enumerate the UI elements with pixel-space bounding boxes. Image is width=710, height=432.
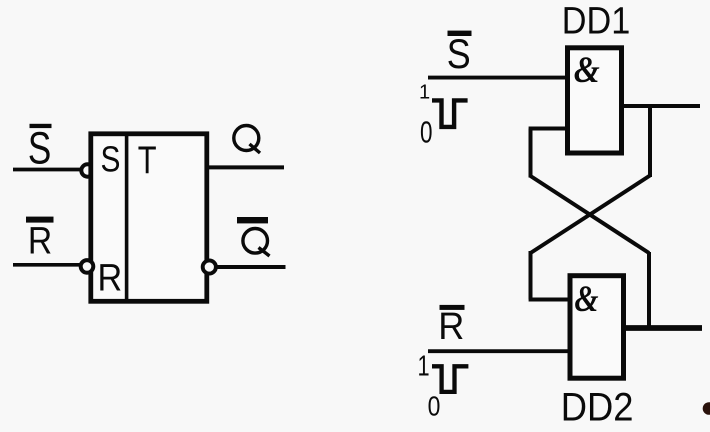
wire S input bbox=[13, 168, 81, 172]
wire cross diagonal DD2-out to DD1-in bbox=[531, 176, 650, 253]
pulse waveform symbol (S) bbox=[432, 100, 468, 127]
wire Q output bbox=[209, 165, 284, 169]
svg-text:DD1: DD1 bbox=[562, 0, 630, 42]
wire DD1-in vertical bbox=[529, 129, 533, 178]
svg-text:R: R bbox=[28, 220, 52, 262]
label Q output bbox=[234, 126, 260, 154]
svg-text:R: R bbox=[438, 304, 464, 347]
wire DD2 output bbox=[625, 325, 702, 331]
NAND gate DD2 body bbox=[570, 276, 624, 379]
svg-text:0: 0 bbox=[420, 114, 433, 149]
NAND gate DD1 body bbox=[568, 48, 622, 153]
wire DD1 output bbox=[624, 104, 701, 108]
flip-flop section divider bbox=[125, 132, 129, 304]
bullet marker bottom right bbox=[703, 402, 710, 415]
label Q-bar output bbox=[237, 217, 270, 256]
inverter bubble R input bbox=[81, 260, 94, 273]
pulse waveform symbol (R) bbox=[432, 366, 468, 392]
svg-text:1: 1 bbox=[418, 351, 430, 383]
svg-text:S: S bbox=[101, 140, 121, 180]
wire R input bbox=[13, 263, 81, 267]
svg-text:&: & bbox=[574, 280, 599, 320]
wire DD1 output branch down bbox=[648, 104, 652, 177]
wire DD2 output branch up bbox=[647, 252, 651, 330]
wire into DD2 input bbox=[529, 298, 570, 302]
svg-text:R: R bbox=[98, 256, 123, 299]
label R-bar (right input) bbox=[438, 304, 464, 347]
flip-flop body T bbox=[91, 134, 207, 301]
label S-bar (right input) bbox=[447, 31, 472, 78]
wire cross diagonal DD1-out to DD2-in bbox=[531, 176, 651, 254]
svg-text:&: & bbox=[574, 49, 600, 90]
svg-text:S: S bbox=[28, 122, 51, 173]
svg-text:S: S bbox=[447, 31, 471, 77]
inverter bubble Q-bar output bbox=[203, 260, 216, 273]
wire R to DD2 bbox=[428, 349, 570, 353]
svg-text:1: 1 bbox=[419, 82, 430, 104]
label R-bar (left input) bbox=[26, 217, 54, 263]
svg-text:DD2: DD2 bbox=[561, 385, 634, 430]
svg-text:0: 0 bbox=[428, 391, 441, 422]
wire S to DD1 bbox=[428, 76, 567, 80]
wire into DD1 input bbox=[529, 127, 567, 131]
wire DD2-in vertical bbox=[529, 251, 533, 300]
svg-text:T: T bbox=[138, 139, 157, 182]
wire Q-bar output bbox=[216, 265, 286, 269]
label S-bar (left input) bbox=[28, 122, 52, 173]
inverter bubble S input bbox=[81, 164, 93, 176]
